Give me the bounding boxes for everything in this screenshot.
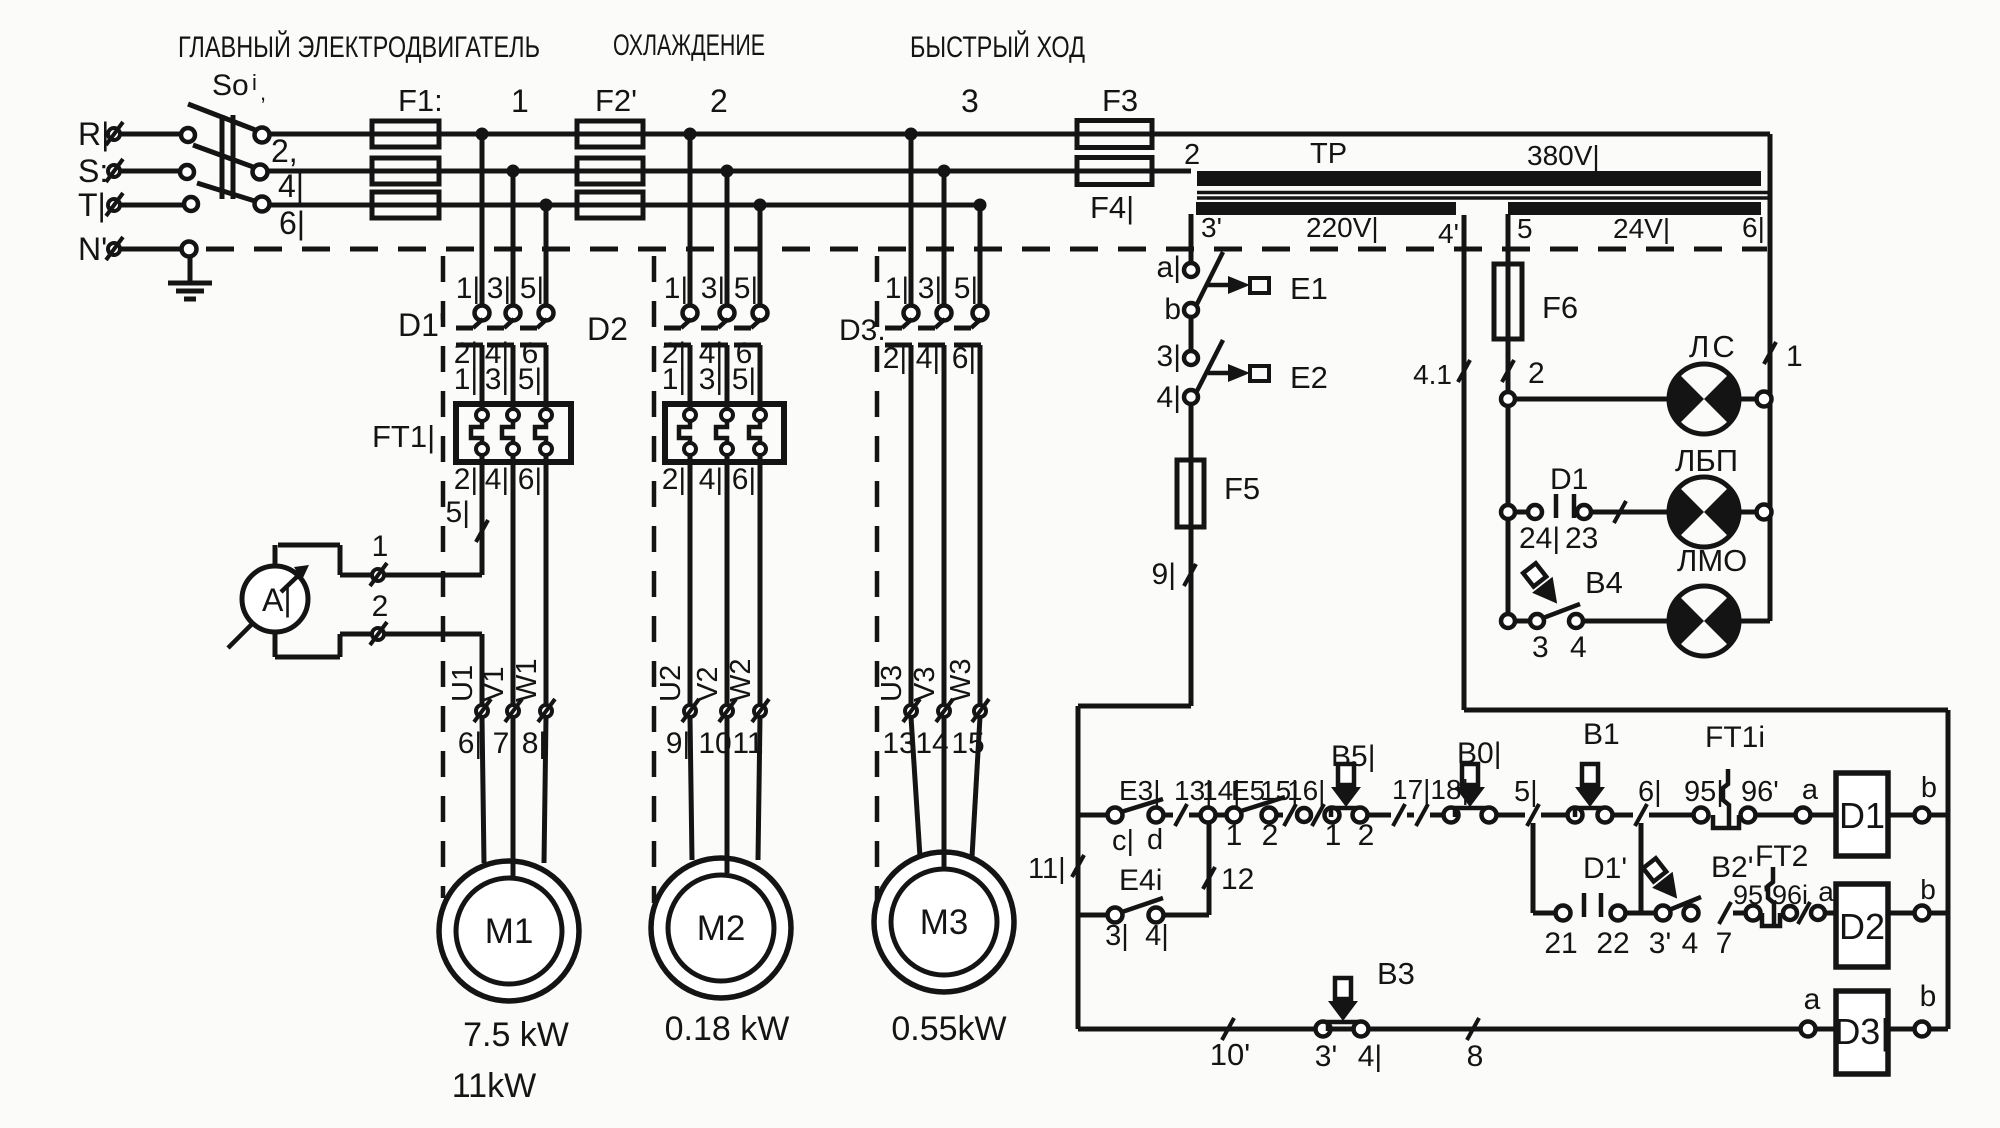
svg-text:17|18|: 17|18| (1392, 774, 1469, 805)
svg-text:3': 3' (1649, 927, 1671, 960)
svg-text:9|: 9| (1152, 558, 1176, 591)
svg-text:,: , (260, 80, 266, 105)
svg-text:ГЛАВНЫЙ ЭЛЕКТРОДВИГАТЕЛЬ: ГЛАВНЫЙ ЭЛЕКТРОДВИГАТЕЛЬ (178, 30, 540, 64)
svg-text:0.55kW: 0.55kW (891, 1010, 1006, 1048)
svg-text:So: So (212, 69, 249, 102)
svg-text:2: 2 (1358, 819, 1375, 852)
svg-text:ЛБП: ЛБП (1675, 443, 1738, 478)
svg-text:3: 3 (1532, 631, 1549, 664)
svg-text:7: 7 (1716, 927, 1733, 960)
svg-text:16|: 16| (1287, 775, 1325, 806)
svg-text:F3: F3 (1102, 83, 1138, 118)
svg-text:4: 4 (1682, 927, 1699, 960)
svg-text:i: i (252, 70, 257, 95)
svg-text:1: 1 (1786, 340, 1803, 373)
svg-text:24V|: 24V| (1613, 213, 1670, 244)
svg-text:b: b (1920, 980, 1937, 1013)
svg-text:3': 3' (1315, 1040, 1337, 1073)
svg-text:c|: c| (1112, 825, 1134, 857)
svg-text:2: 2 (710, 83, 728, 119)
svg-text:a|: a| (1157, 251, 1181, 284)
svg-text:0.18 kW: 0.18 kW (665, 1010, 790, 1048)
svg-text:S:: S: (78, 153, 108, 189)
svg-text:ЛС: ЛС (1689, 329, 1738, 364)
svg-text:4|: 4| (1145, 920, 1169, 952)
svg-text:4|: 4| (699, 463, 723, 496)
svg-text:2,: 2, (271, 133, 298, 169)
svg-text:V1: V1 (478, 667, 510, 702)
svg-text:3': 3' (1201, 212, 1222, 243)
svg-text:10': 10' (1210, 1037, 1250, 1072)
svg-text:F5: F5 (1224, 471, 1260, 506)
svg-text:5|: 5| (520, 272, 544, 305)
svg-text:b: b (1920, 874, 1936, 905)
svg-text:4|: 4| (485, 463, 509, 496)
svg-text:8|: 8| (522, 727, 546, 760)
svg-text:4|: 4| (1157, 381, 1181, 414)
svg-text:1|: 1| (664, 272, 688, 305)
svg-text:9|: 9| (666, 727, 690, 760)
svg-text:W1: W1 (511, 659, 543, 703)
svg-text:1|: 1| (885, 272, 909, 305)
svg-text:96': 96' (1741, 776, 1779, 808)
svg-text:FT1|: FT1| (372, 419, 435, 454)
svg-text:F6: F6 (1542, 290, 1578, 325)
svg-text:6|: 6| (1638, 776, 1662, 808)
svg-text:12: 12 (1221, 863, 1254, 896)
svg-text:ОХЛАЖДЕНИЕ: ОХЛАЖДЕНИЕ (613, 29, 765, 62)
svg-text:21: 21 (1544, 927, 1577, 960)
svg-text:D1': D1' (1583, 852, 1627, 885)
svg-text:4': 4' (1438, 218, 1459, 249)
svg-text:7.5 kW: 7.5 kW (463, 1016, 569, 1054)
svg-text:FT2: FT2 (1755, 840, 1808, 873)
svg-text:3|: 3| (699, 363, 723, 396)
svg-text:5|: 5| (732, 363, 756, 396)
svg-text:11|: 11| (1028, 853, 1066, 885)
svg-text:1: 1 (372, 530, 389, 563)
svg-text:b: b (1921, 772, 1937, 804)
svg-text:b: b (1164, 293, 1181, 326)
svg-text:23: 23 (1565, 522, 1598, 555)
svg-text:D3|: D3| (1834, 1011, 1889, 1052)
svg-text:D1: D1 (1550, 463, 1588, 496)
svg-text:T|: T| (78, 187, 106, 223)
svg-text:380V|: 380V| (1527, 140, 1600, 171)
svg-text:D1: D1 (1839, 795, 1885, 836)
svg-text:3|: 3| (485, 363, 509, 396)
svg-text:2|: 2| (883, 342, 907, 375)
svg-text:F4|: F4| (1090, 190, 1134, 225)
svg-text:M3: M3 (920, 903, 969, 942)
svg-text:ЛМО: ЛМО (1677, 543, 1747, 578)
svg-text:B3: B3 (1377, 956, 1415, 991)
svg-text:1: 1 (1226, 819, 1243, 852)
svg-text:4.1: 4.1 (1413, 359, 1452, 390)
svg-text:E1: E1 (1290, 271, 1328, 306)
svg-text:E3|: E3| (1119, 775, 1161, 806)
svg-text:6|: 6| (518, 463, 542, 496)
svg-text:95|: 95| (1684, 776, 1724, 808)
svg-text:1: 1 (511, 83, 529, 119)
svg-text:FT1i: FT1i (1705, 721, 1765, 754)
svg-text:D2: D2 (587, 311, 628, 347)
svg-text:95': 95' (1733, 880, 1768, 910)
svg-text:6|: 6| (732, 463, 756, 496)
svg-text:7: 7 (493, 727, 510, 760)
svg-text:F2': F2' (595, 83, 637, 118)
svg-text:M1: M1 (485, 912, 534, 951)
svg-text:2|: 2| (454, 463, 478, 496)
svg-text:5|: 5| (518, 363, 542, 396)
svg-text:2: 2 (1262, 819, 1279, 852)
svg-text:6|: 6| (952, 342, 976, 375)
svg-text:a: a (1804, 983, 1821, 1016)
svg-text:M2: M2 (697, 909, 746, 948)
svg-text:U1: U1 (447, 665, 479, 702)
svg-text:D2: D2 (1839, 906, 1885, 947)
svg-text:W2: W2 (725, 659, 757, 703)
svg-text:W3: W3 (945, 659, 977, 703)
svg-text:2: 2 (1184, 139, 1200, 171)
svg-text:R|: R| (78, 116, 109, 152)
svg-text:3|: 3| (1157, 340, 1181, 373)
svg-text:2: 2 (372, 590, 389, 623)
svg-text:E2: E2 (1290, 360, 1328, 395)
svg-text:5|: 5| (734, 272, 758, 305)
svg-text:3|: 3| (1105, 920, 1129, 952)
svg-text:V2: V2 (692, 667, 724, 702)
svg-text:a: a (1802, 774, 1819, 806)
svg-text:D1': D1' (398, 307, 445, 343)
svg-text:1|: 1| (454, 363, 478, 396)
svg-text:1|: 1| (456, 272, 480, 305)
svg-text:TP: TP (1310, 138, 1347, 170)
svg-text:1|: 1| (662, 363, 686, 396)
svg-text:a: a (1818, 876, 1834, 907)
svg-text:3: 3 (961, 83, 979, 119)
svg-text:3|: 3| (918, 272, 942, 305)
svg-text:6|: 6| (458, 727, 482, 760)
svg-text:2: 2 (1528, 357, 1545, 390)
svg-text:5|: 5| (1514, 776, 1538, 808)
svg-text:220V|: 220V| (1306, 212, 1379, 243)
svg-text:8: 8 (1467, 1040, 1484, 1073)
svg-text:E4i: E4i (1119, 864, 1162, 897)
svg-text:B0|: B0| (1457, 737, 1502, 770)
svg-text:U3: U3 (876, 665, 908, 702)
svg-text:11kW: 11kW (452, 1067, 536, 1105)
svg-text:B4: B4 (1585, 565, 1623, 600)
svg-text:V3: V3 (909, 667, 941, 702)
svg-text:F1:: F1: (398, 83, 443, 118)
svg-text:6|: 6| (1742, 212, 1765, 243)
svg-text:4|: 4| (916, 342, 940, 375)
svg-text:3|: 3| (701, 272, 725, 305)
svg-text:2|: 2| (662, 463, 686, 496)
svg-text:4|: 4| (1358, 1040, 1382, 1073)
svg-text:6|: 6| (279, 205, 305, 241)
svg-text:96i: 96i (1772, 880, 1808, 910)
svg-text:3|: 3| (487, 272, 511, 305)
svg-text:B5|: B5| (1331, 740, 1376, 773)
svg-text:24|: 24| (1519, 522, 1560, 555)
svg-text:22: 22 (1596, 927, 1629, 960)
svg-text:N': N' (78, 231, 107, 267)
svg-text:5: 5 (1517, 213, 1533, 244)
svg-text:U2: U2 (655, 665, 687, 702)
svg-text:5|: 5| (954, 272, 978, 305)
svg-text:5|: 5| (446, 496, 470, 529)
svg-text:БЫСТРЫЙ ХОД: БЫСТРЫЙ ХОД (910, 30, 1085, 64)
svg-text:d: d (1147, 824, 1163, 856)
svg-text:B1: B1 (1583, 718, 1620, 751)
svg-text:4: 4 (1570, 631, 1587, 664)
svg-text:1: 1 (1325, 819, 1342, 852)
